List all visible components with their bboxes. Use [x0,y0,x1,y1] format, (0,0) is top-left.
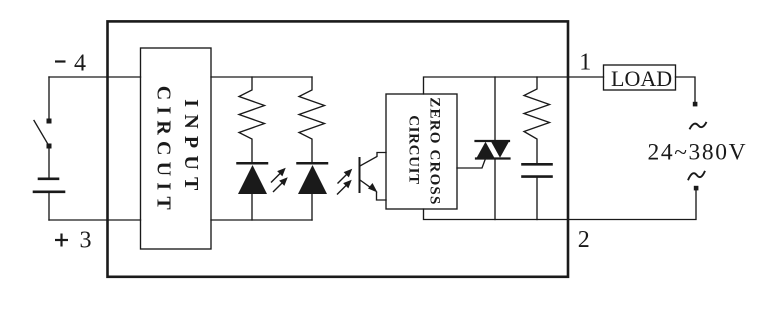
svg-text:LOAD: LOAD [611,66,672,91]
svg-text:2: 2 [578,227,590,253]
svg-text:ZERO CROSS: ZERO CROSS [427,97,443,204]
svg-text:1: 1 [579,50,591,76]
svg-text:4: 4 [74,51,86,77]
svg-text:3: 3 [80,228,92,254]
svg-text:24~380V: 24~380V [648,140,748,166]
svg-text:CIRCUIT: CIRCUIT [406,115,422,184]
